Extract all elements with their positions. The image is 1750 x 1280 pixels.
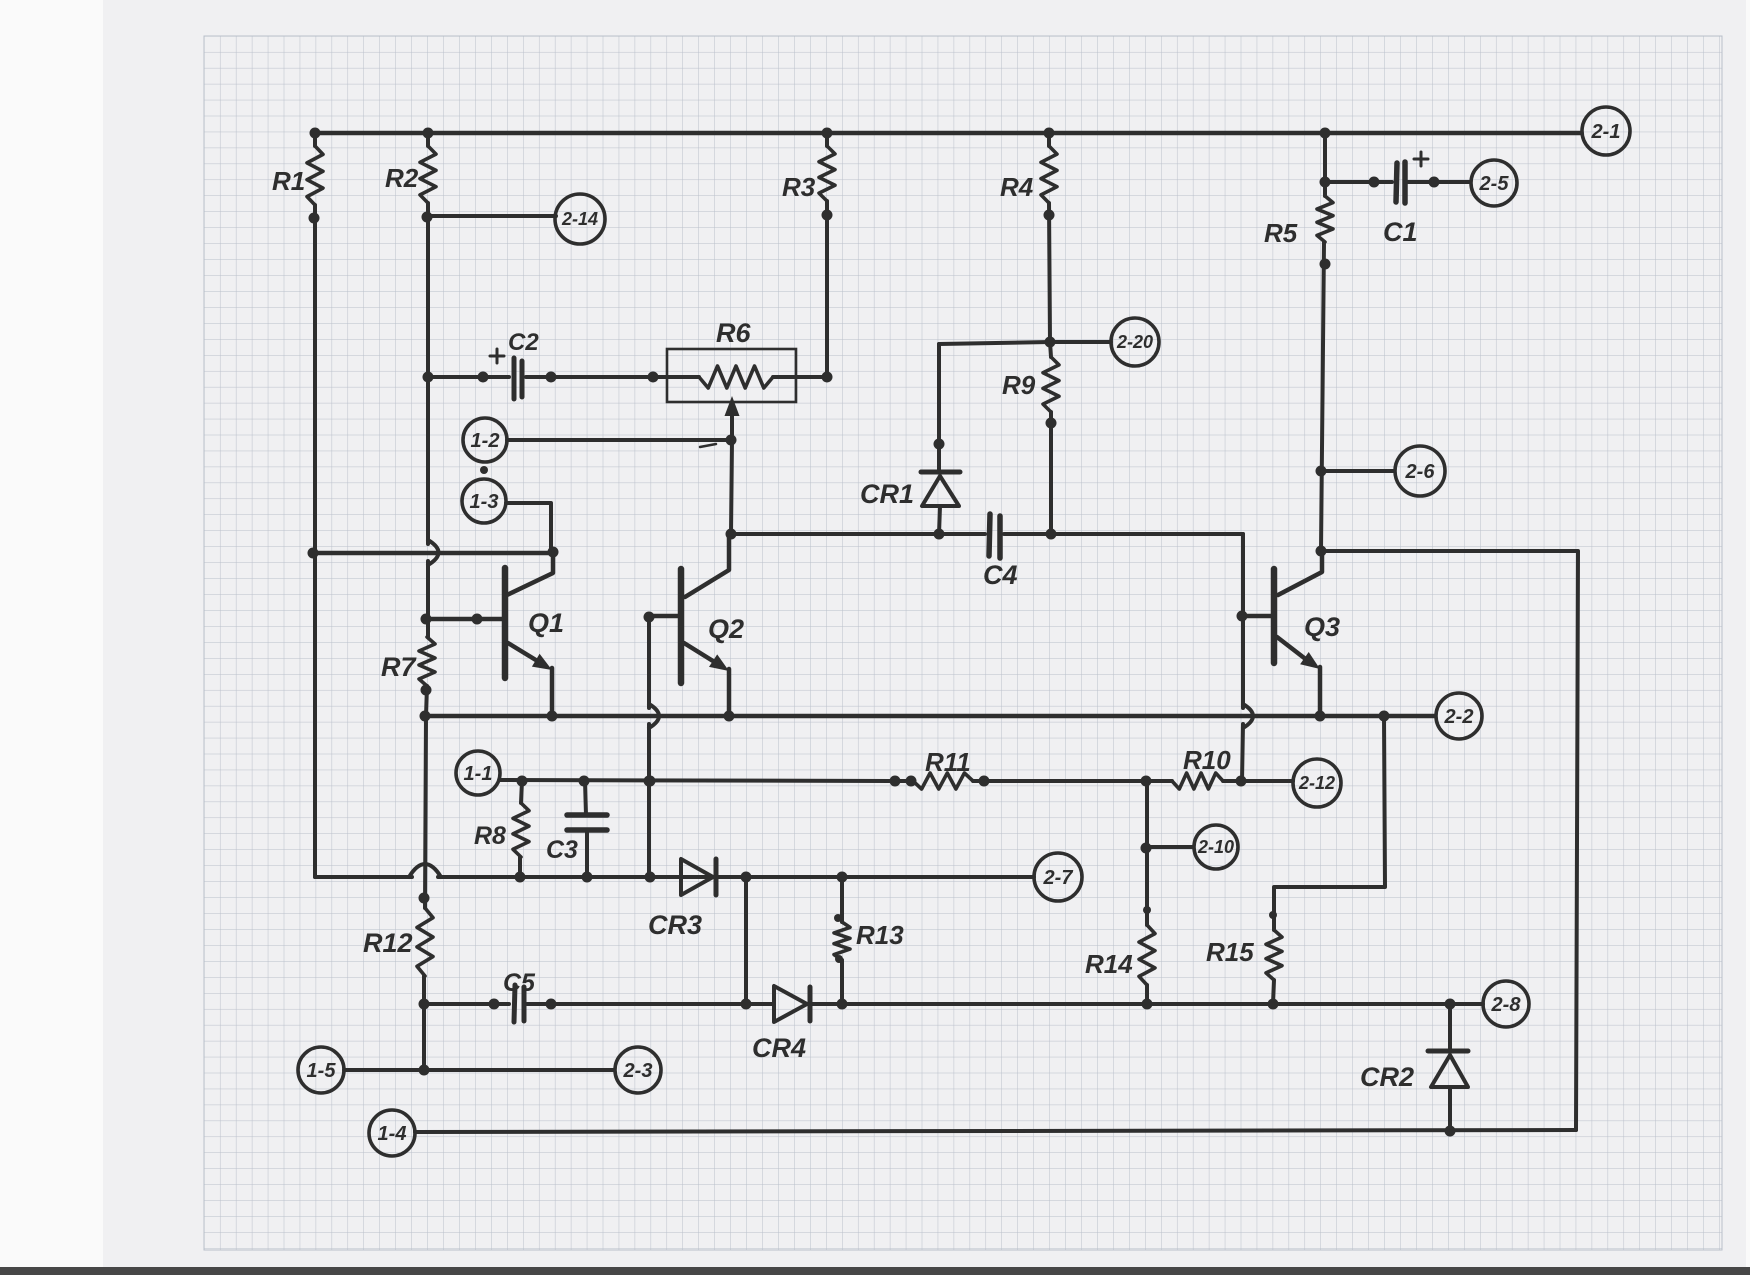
node 2-6	[1395, 446, 1445, 496]
svg-text:R9: R9	[1002, 370, 1036, 400]
wire R14 to 2-8 line	[1145, 985, 1149, 1004]
transistor Q2 base bar	[678, 569, 685, 683]
node 2-5	[1471, 160, 1517, 206]
wire Q3 base drop lower	[1242, 724, 1243, 781]
Q3 emitter	[1277, 637, 1312, 664]
hop over Q1 bus	[428, 540, 439, 565]
hop over emitter bus at Q3	[1243, 704, 1253, 728]
svg-text:1-1: 1-1	[464, 763, 493, 785]
wire R14 drop	[1145, 781, 1149, 925]
capacitor C2	[512, 358, 517, 399]
wire C1 stub	[1325, 180, 1392, 184]
Q2 base wire	[649, 614, 681, 619]
svg-text:2-2: 2-2	[1444, 706, 1474, 728]
svg-text:R6: R6	[716, 318, 751, 348]
resistor R4	[1047, 133, 1051, 146]
wire R3 vertical	[825, 201, 829, 377]
wire C4 line right	[1004, 532, 1243, 536]
svg-text:R10: R10	[1183, 745, 1231, 775]
svg-text:C5: C5	[503, 969, 536, 997]
node 2-14	[555, 194, 605, 244]
resistor R3	[825, 133, 829, 146]
resistor R7	[419, 637, 435, 686]
resistor R10	[1172, 773, 1223, 789]
capacitor C5	[514, 985, 515, 1022]
wire CR1 vertical	[937, 344, 941, 470]
svg-text:CR1: CR1	[860, 479, 914, 509]
wire C4 line left	[731, 532, 985, 536]
wire R5 down	[1321, 242, 1324, 551]
wire R4 vertical	[1049, 203, 1050, 342]
node 1-1	[456, 751, 500, 795]
wire R1 down left rail	[313, 205, 317, 877]
svg-text:R1: R1	[272, 166, 305, 196]
wire bus to R12	[425, 716, 426, 908]
label C2 plus	[490, 349, 504, 363]
wire C4 corner down	[1241, 534, 1245, 616]
Q1 base wire	[426, 617, 505, 622]
wire R15 to 2-8 line	[1273, 980, 1274, 1004]
diode CR2	[1448, 1004, 1452, 1049]
svg-text:R2: R2	[385, 163, 419, 193]
capacitor C1	[1396, 163, 1397, 202]
wire 1-3 to Q1 collector	[506, 503, 551, 552]
svg-text:R11: R11	[925, 747, 971, 777]
wire 1-4 bottom bus	[415, 1130, 1576, 1132]
node 2-10	[1194, 825, 1238, 869]
wire y877 line continued	[438, 875, 1034, 879]
wire 1-5 to 2-3	[344, 1068, 614, 1072]
junction dot C2 line	[423, 372, 434, 383]
resistor R12	[417, 908, 433, 976]
diode CR3	[681, 859, 713, 895]
svg-text:2-12: 2-12	[1298, 773, 1335, 793]
wire C5 line left	[424, 1002, 509, 1006]
svg-text:R12: R12	[363, 928, 413, 958]
node 2-3	[615, 1047, 661, 1093]
wire Q1 collector bus	[313, 551, 553, 556]
node 2-7	[1034, 853, 1082, 901]
Q2 emitter	[684, 643, 721, 666]
hop over emitter bus at Q2	[649, 704, 659, 728]
scanner left white band	[0, 0, 103, 1275]
svg-text:R14: R14	[1085, 949, 1133, 979]
resistor R6	[667, 375, 699, 379]
Q1 collector	[507, 553, 553, 595]
dots on y877 under R8 C3	[515, 872, 526, 883]
wire R6 to R3 foot	[796, 375, 827, 379]
svg-text:R7: R7	[381, 652, 417, 682]
svg-text:C1: C1	[1383, 217, 1418, 247]
wire R9 vertical	[1050, 342, 1051, 357]
node 1-5	[298, 1047, 344, 1093]
label C1 plus	[1414, 152, 1428, 166]
tick near wiper	[700, 444, 716, 447]
node 1-3	[462, 479, 506, 523]
dot between 1-2 and 1-3	[480, 466, 488, 474]
svg-text:C4: C4	[983, 560, 1018, 590]
resistor R11	[913, 773, 973, 789]
wire R15 corner	[1274, 716, 1385, 930]
svg-text:1-3: 1-3	[470, 491, 499, 513]
scanner bottom dark strip	[0, 1267, 1750, 1275]
svg-text:2-3: 2-3	[623, 1060, 653, 1082]
diode CR1	[921, 470, 960, 475]
resistor R13	[840, 877, 844, 922]
wire 1-1 line	[500, 780, 911, 781]
wire Q3 collector rail	[1321, 551, 1578, 1130]
resistor R5	[1317, 196, 1333, 242]
svg-text:2-10: 2-10	[1197, 837, 1234, 857]
wire C1 to 2-5	[1408, 180, 1470, 184]
wire R10 to 2-12	[1223, 779, 1293, 783]
R6 wiper arrow	[730, 416, 734, 440]
wire top bus	[315, 131, 1581, 136]
wire R5 top	[1323, 133, 1327, 196]
svg-text:2-7: 2-7	[1043, 867, 1074, 889]
svg-text:CR2: CR2	[1360, 1062, 1414, 1092]
node 2-12	[1293, 759, 1341, 807]
svg-text:R3: R3	[782, 172, 816, 202]
wire Q2 base drop	[647, 617, 651, 708]
svg-text:R4: R4	[1000, 172, 1034, 202]
wire CR4 to 2-8	[810, 1002, 1483, 1006]
svg-text:2-6: 2-6	[1405, 461, 1436, 483]
potentiometer R6 box	[667, 349, 796, 402]
wire C2 to R6	[526, 375, 667, 379]
svg-text:1-2: 1-2	[471, 430, 500, 452]
svg-text:2-8: 2-8	[1491, 994, 1522, 1016]
svg-text:1-4: 1-4	[378, 1123, 407, 1145]
wire 1-2 to wiper	[507, 438, 731, 442]
wire R12 to C5 line	[422, 976, 426, 1070]
svg-text:C3: C3	[546, 836, 578, 864]
wire 2-14 stub	[428, 214, 556, 218]
wire Q3 base drop	[1241, 616, 1245, 708]
node 1-2	[463, 418, 507, 462]
svg-text:Q3: Q3	[1304, 612, 1340, 642]
svg-text:2-1: 2-1	[1591, 121, 1621, 143]
wire CR3 link down	[744, 877, 748, 1004]
svg-text:CR4: CR4	[752, 1033, 806, 1063]
resistor R15	[1266, 930, 1282, 980]
svg-text:CR3: CR3	[648, 910, 702, 940]
svg-text:2-20: 2-20	[1116, 332, 1153, 352]
Q3 collector	[1278, 551, 1322, 595]
resistor R2	[426, 133, 430, 146]
node 2-8	[1483, 981, 1529, 1027]
wire Q2 base drop lower	[647, 724, 651, 877]
Q1 emitter	[508, 643, 544, 665]
svg-text:R5: R5	[1264, 218, 1298, 248]
node 2-1	[1582, 107, 1630, 155]
wire 2-6 stub	[1321, 469, 1394, 473]
svg-text:C2: C2	[508, 329, 539, 356]
svg-text:2-14: 2-14	[561, 209, 598, 229]
svg-text:R8: R8	[474, 822, 506, 850]
svg-text:Q1: Q1	[528, 608, 564, 638]
wire R2 vertical	[426, 203, 430, 544]
resistor R14	[1139, 925, 1155, 985]
svg-text:2-5: 2-5	[1479, 173, 1510, 195]
bus junction dots	[420, 711, 431, 722]
svg-text:1-5: 1-5	[307, 1060, 337, 1082]
svg-text:R15: R15	[1206, 937, 1254, 967]
wire R11 to R10	[973, 779, 1172, 783]
junction dots on top bus	[310, 128, 321, 139]
dots CR3 line	[741, 872, 752, 883]
node 1-4	[369, 1110, 415, 1156]
capacitor C3	[585, 781, 586, 815]
wire 2-20 stub	[939, 342, 1111, 344]
wire to C2	[428, 375, 509, 379]
hop over R12 rail	[409, 864, 441, 877]
transistor Q3 base bar	[1271, 569, 1278, 663]
resistor R8	[521, 781, 522, 803]
node 2-2	[1436, 693, 1482, 739]
wire y877 line	[315, 875, 412, 879]
svg-text:Q2: Q2	[708, 614, 744, 644]
wire R7 to bus	[426, 686, 427, 716]
wire wiper shaft	[731, 440, 732, 534]
wire C5 to CR4	[527, 1002, 774, 1006]
resistor R9	[1043, 357, 1059, 412]
node 2-20	[1111, 318, 1159, 366]
svg-text:R13: R13	[856, 920, 904, 950]
transistor Q1 base bar	[502, 568, 509, 678]
wire R2 vertical lower	[426, 561, 430, 637]
wire emitter bus	[425, 714, 1434, 719]
capacitor C4	[989, 514, 990, 556]
wire 2-10 stub	[1147, 845, 1193, 849]
resistor R1	[313, 133, 317, 146]
Q3 base wire	[1243, 614, 1274, 619]
Q2 collector	[685, 536, 729, 597]
diode CR4	[774, 986, 807, 1022]
